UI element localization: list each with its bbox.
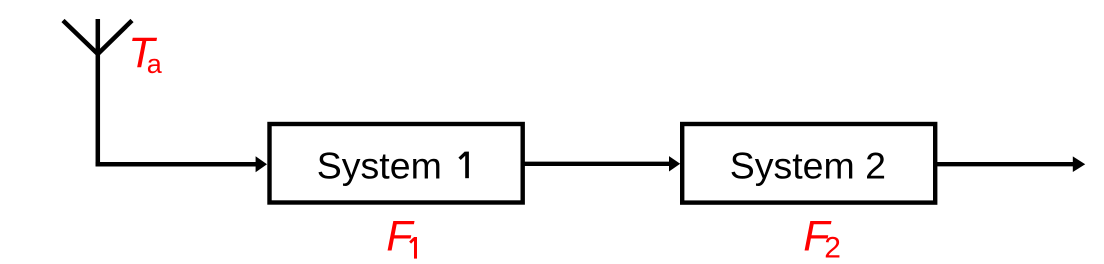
- block System 1: [270, 124, 523, 203]
- label System 1: [317, 144, 469, 186]
- label Ta (antenna noise temperature): [128, 29, 163, 79]
- wire System 1 output to System 2 input: [523, 156, 680, 171]
- svg-text:a: a: [147, 49, 163, 79]
- block System 2: [682, 124, 935, 203]
- svg-text:System: System: [317, 144, 442, 186]
- wire System 2 output: [935, 156, 1085, 172]
- svg-text:F: F: [386, 213, 415, 261]
- wire antenna to System 1 input: [96, 156, 267, 172]
- antenna: [63, 19, 132, 166]
- label F1 (noise figure of System 1): [386, 213, 417, 261]
- label F2 (noise figure of System 2): [803, 213, 841, 264]
- svg-text:2: 2: [824, 232, 841, 264]
- svg-text:System 2: System 2: [730, 144, 886, 186]
